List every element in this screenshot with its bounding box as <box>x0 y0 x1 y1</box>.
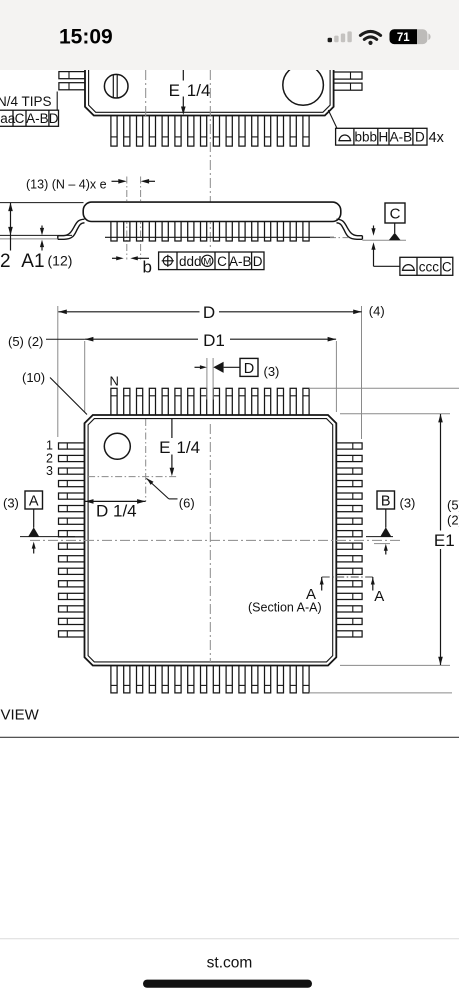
datum D callout: small arrow <box>195 366 203 368</box>
datum D callout: gap extension lines <box>206 358 208 400</box>
dimension D1: line, arrows, label <box>85 338 198 340</box>
svg-text:(13) (N – 4)x e: (13) (N – 4)x e <box>26 177 107 191</box>
labels (5) (2) with leader to D1 <box>46 338 85 340</box>
dimension E1: extension lines <box>340 413 450 415</box>
svg-text:A: A <box>29 494 39 510</box>
top view: package body outline (inner) <box>89 70 331 112</box>
svg-text:C: C <box>442 259 452 274</box>
side view: package body profile <box>83 202 341 221</box>
svg-text:2: 2 <box>0 251 11 272</box>
section A-A left leg with arrow <box>321 577 323 591</box>
top view: package body outline (outer) <box>85 70 334 116</box>
side view: A1 dimension arrows <box>41 226 43 229</box>
svg-text:E: E <box>159 438 170 457</box>
side view: A2 dimension line with arrows <box>10 203 12 251</box>
bottom view: E 1/4 horizontal centerline (dash-dot) <box>88 476 176 478</box>
top view: pin-1 index circle with slot <box>104 74 128 98</box>
status bar background <box>0 0 459 70</box>
top view: profile|bbb|H|A-B|D|4x tolerance frame <box>336 128 445 146</box>
side view: lead centerline extensions (dash-dot) <box>126 177 128 260</box>
svg-text:A-B: A-B <box>26 111 49 126</box>
svg-text:15:09: 15:09 <box>59 26 113 49</box>
side view: left gull-wing lead <box>58 219 85 239</box>
top view: leader from aaa frame to pin tips <box>56 92 58 111</box>
svg-text:(4): (4) <box>369 304 385 319</box>
dimension E 1/4: line, arrow, label <box>171 419 173 438</box>
side view: foot line across leads <box>105 236 334 238</box>
svg-text:(3): (3) <box>400 496 416 511</box>
svg-text:(Section A-A): (Section A-A) <box>248 601 322 615</box>
top view / side view vertical center axis <box>209 70 211 250</box>
svg-text:ddd: ddd <box>179 254 202 269</box>
dimension E extension lines (cut off at right) <box>309 387 459 389</box>
svg-text:(6): (6) <box>179 496 195 511</box>
bottom view: right column pins <box>336 443 362 637</box>
top view: bottom row pin leads <box>111 116 309 147</box>
svg-text:N/4 TIPS: N/4 TIPS <box>0 94 52 109</box>
svg-text:1/4: 1/4 <box>187 81 211 100</box>
dimension D: line, arrows, label <box>58 311 199 313</box>
datum B small arrow on axis <box>384 544 388 551</box>
svg-text:1/4: 1/4 <box>176 438 200 457</box>
side view: A2 top extension line <box>0 202 84 204</box>
bottom view: vertical center axis (dash-dot) <box>209 424 211 663</box>
svg-text:D: D <box>415 130 425 145</box>
section A-A right leg with arrow <box>372 577 374 591</box>
svg-text:(3): (3) <box>264 364 280 379</box>
side view: datum C leader and triangle <box>394 223 396 233</box>
side view: right gull-wing lead <box>337 219 363 239</box>
wifi icon <box>360 31 380 45</box>
dimension D1: extension lines <box>84 341 86 412</box>
footer hairline <box>0 938 459 940</box>
bottom view: left column pins <box>59 443 85 637</box>
svg-text:C: C <box>15 111 25 126</box>
svg-text:b: b <box>143 257 152 276</box>
bottom view: package body outline (inner) <box>88 419 333 662</box>
datum D callout: filled triangle pointer <box>213 362 223 373</box>
svg-text:E: E <box>169 81 180 100</box>
section A-A cut line (dash-dot) <box>322 576 373 578</box>
svg-text:st.com: st.com <box>207 954 253 971</box>
datum A box <box>25 491 43 509</box>
datum B leader and filled triangle <box>385 509 387 528</box>
datum A small arrow on axis <box>32 542 36 549</box>
bottom view: bottom row pins <box>111 666 309 693</box>
datum A base line <box>20 536 75 538</box>
svg-text:B: B <box>381 494 391 510</box>
svg-text:D: D <box>244 361 254 377</box>
top view: right side pin leads <box>334 72 362 90</box>
side view: pitch dimension arrows <box>112 180 123 182</box>
svg-text:4x: 4x <box>429 130 445 146</box>
side view: right foot lead centerline (dash-dot) <box>330 237 349 239</box>
side view: seating plane line (right) <box>362 239 406 241</box>
side view: profile|ccc|C tolerance frame <box>400 257 453 275</box>
svg-text:3: 3 <box>46 464 53 478</box>
svg-text:(5): (5) <box>447 498 459 513</box>
side view: ccc dimension arrows <box>373 226 375 230</box>
top view: centerline D quarter (dash-dot) <box>145 70 147 119</box>
svg-text:H: H <box>379 130 389 145</box>
svg-text:(5) (2): (5) (2) <box>8 334 43 349</box>
svg-text:C: C <box>217 254 227 269</box>
dimension E1: line, arrows, label <box>440 414 442 531</box>
svg-text:C: C <box>390 205 401 222</box>
svg-text:ccc: ccc <box>419 259 440 274</box>
battery icon 71% <box>390 29 431 44</box>
svg-text:A1: A1 <box>21 251 44 272</box>
svg-text:E1: E1 <box>434 531 455 550</box>
datum B base line <box>366 536 393 538</box>
datum B box <box>377 491 395 509</box>
bottom view: package body outline (outer, chamfered) <box>85 415 337 666</box>
top view: E 1/4 dimension line and arrow <box>182 70 184 81</box>
svg-text:D: D <box>253 254 263 269</box>
svg-text:A-B: A-B <box>390 130 413 145</box>
label (6) with leader to axis intersection <box>147 478 154 485</box>
datum D box <box>240 358 258 376</box>
top view: large mold circle <box>283 65 324 106</box>
svg-text:VIEW: VIEW <box>1 707 40 724</box>
side view: pin stubs row <box>111 217 309 242</box>
side view: seating plane extension lines (left) <box>0 234 72 236</box>
side view: datum C box <box>385 203 405 223</box>
side view: position|ddd(M)|C|A-B|D tolerance frame <box>159 252 264 270</box>
bottom view: D 1/4 vertical centerline (dash-dot) <box>145 419 147 501</box>
svg-text:D1: D1 <box>203 331 225 350</box>
svg-text:N: N <box>110 374 119 389</box>
svg-text:(12): (12) <box>48 252 73 268</box>
bottom view: top row pins <box>111 388 309 415</box>
svg-text:A: A <box>374 588 384 605</box>
svg-text:D 1/4: D 1/4 <box>96 501 137 520</box>
svg-text:(10): (10) <box>22 370 45 385</box>
dimension D 1/4: line, arrows, label <box>85 500 146 502</box>
side view: b dimension arrows <box>112 257 119 259</box>
bottom view: horizontal center axis (dash-dot) <box>30 539 402 541</box>
svg-text:M: M <box>203 257 211 268</box>
svg-text:(2): (2) <box>447 513 459 528</box>
top view: leader from bbb frame to corner <box>328 110 337 128</box>
svg-text:D: D <box>203 303 215 322</box>
svg-text:(3): (3) <box>3 496 19 511</box>
top view: aaa|C|A-B|D tolerance frame <box>0 110 59 126</box>
svg-text:aa: aa <box>0 111 16 126</box>
svg-text:bbb: bbb <box>355 130 378 145</box>
datum A leader and filled triangle <box>33 509 35 528</box>
dimension D: extension lines <box>57 306 59 437</box>
content separator rule <box>0 736 459 738</box>
top view: left side pin leads <box>59 72 85 90</box>
svg-text:A-B: A-B <box>229 254 252 269</box>
signal bars icon <box>328 31 352 42</box>
svg-text:D: D <box>49 111 59 126</box>
svg-text:71: 71 <box>397 32 410 44</box>
bottom view: pin-1 identifier circle <box>104 433 130 459</box>
home indicator bar <box>143 980 312 988</box>
